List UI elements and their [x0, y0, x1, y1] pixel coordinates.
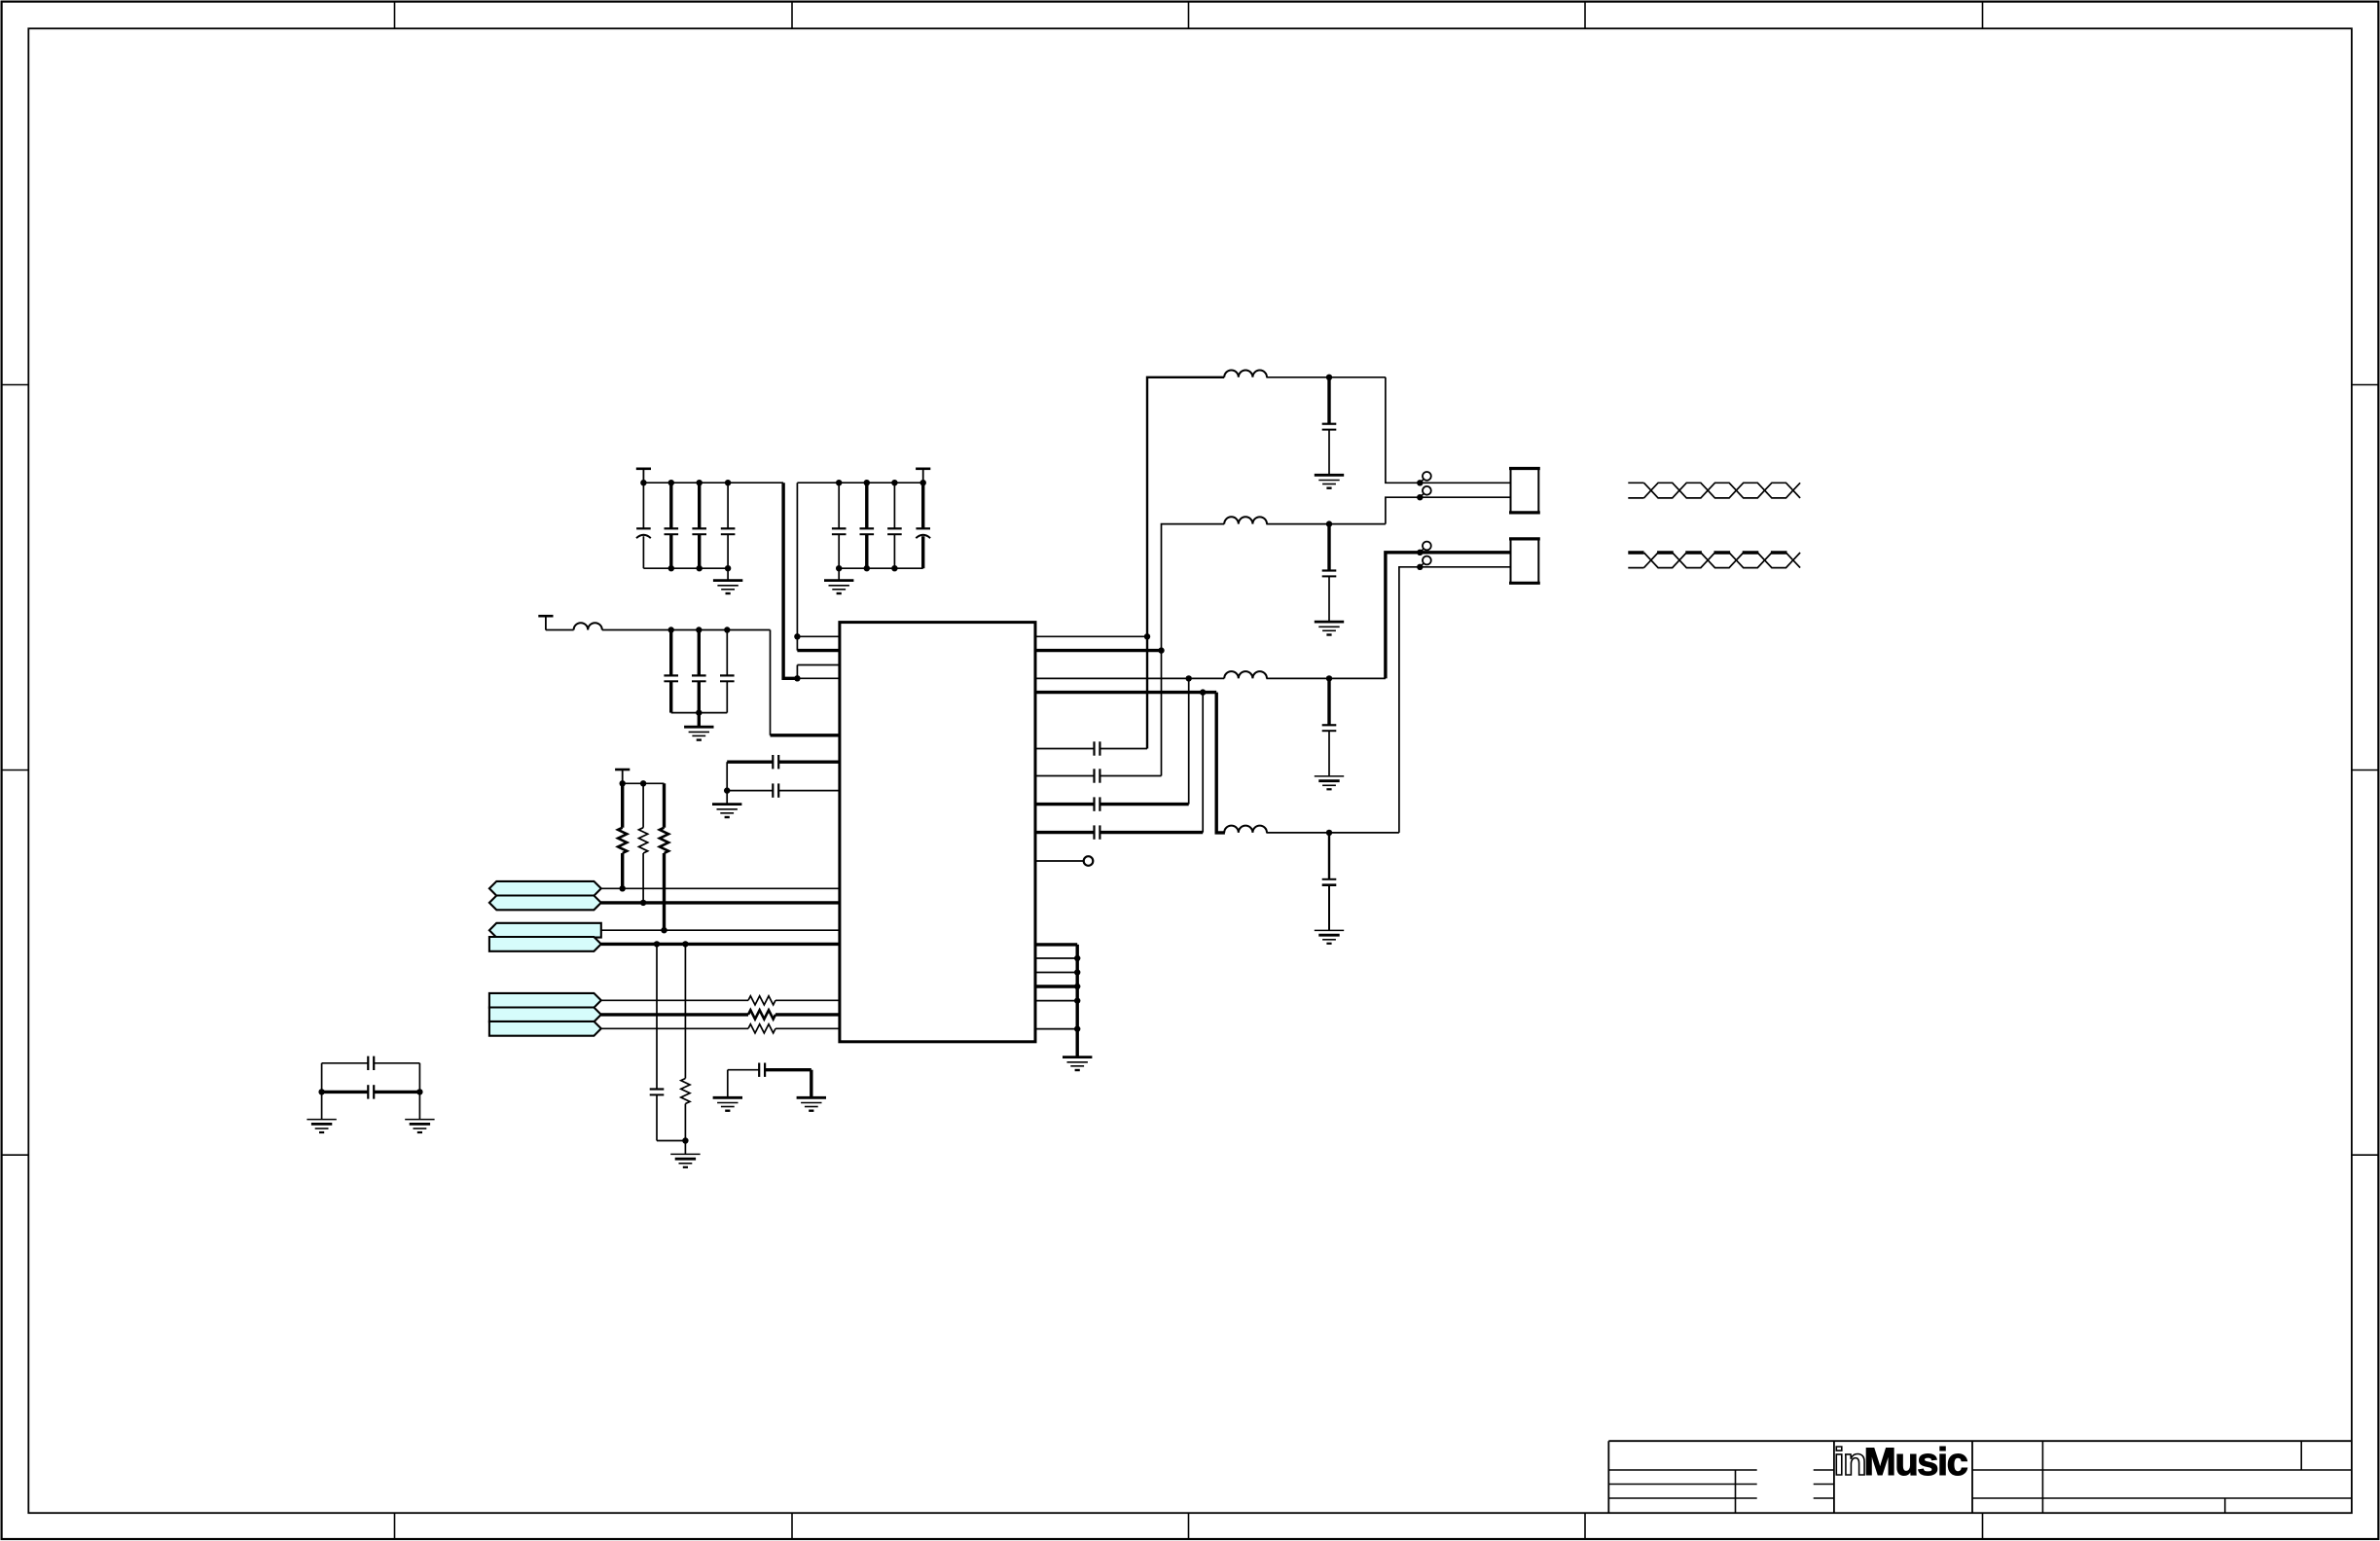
wire FB2 out [1266, 523, 1386, 525]
capacitor C20 [1035, 769, 1162, 782]
wire NET4 to U1 [601, 943, 840, 946]
resistor R5 [601, 996, 840, 1005]
capacitor C10 [692, 630, 706, 713]
twisted pair cable W1 [1628, 483, 1800, 498]
wire NET3 to U1 [601, 929, 840, 931]
wire A elbow [796, 665, 798, 679]
node A1 [794, 675, 800, 681]
wire U1 pin1 right [1035, 635, 1147, 637]
capacitor C11 [720, 630, 735, 713]
connector J1 [1509, 469, 1540, 513]
power flag VDD1 [636, 469, 651, 483]
wire FB4 to J2 [1399, 567, 1511, 833]
wire C9-C11 bottom rail [671, 709, 728, 715]
wire ground bus [1035, 945, 1080, 1057]
wire C5-C8 bottom rail [836, 565, 923, 571]
wire mid rail [668, 627, 771, 632]
wire U1 pin2 left [797, 649, 840, 652]
wire VDD2 rail [797, 480, 926, 485]
net flag NET5 [489, 993, 601, 1008]
capacitor C23 [1322, 377, 1337, 476]
resistor R4 [681, 944, 690, 1140]
node C16R [416, 1089, 422, 1094]
wire U1 pin3 right [1035, 677, 1224, 679]
net flag NET3 [489, 923, 601, 938]
capacitor C9 [664, 630, 678, 713]
ground GFB4 [1315, 930, 1344, 943]
net flag NET1 [489, 881, 601, 896]
wire ferrite2 riser [1162, 524, 1225, 776]
wire FB4 out [1266, 832, 1399, 834]
ground bank2 [824, 568, 853, 593]
node V2 [1158, 647, 1164, 653]
no-connect pin [1035, 856, 1093, 866]
IC U1 [840, 623, 1035, 1042]
wire U1 pin1 left [797, 635, 840, 637]
wire U1 pin3 left [797, 664, 840, 666]
capacitor C5 [832, 483, 847, 568]
node FB1 [1326, 375, 1332, 380]
resistor R7 [601, 1024, 840, 1033]
wire mid rail to U1 pin5 [771, 630, 840, 735]
ground bank3 [684, 713, 713, 740]
resistor R6 [601, 1010, 840, 1019]
capacitor C16 [322, 1085, 420, 1098]
wire C15 left rail [321, 1063, 323, 1120]
capacitor C14 [650, 944, 686, 1140]
wire U1 pin2 right [1035, 649, 1162, 652]
capacitor C24 [1322, 524, 1337, 623]
wire NET1 to U1 [601, 887, 840, 889]
capacitor C1 [636, 483, 651, 568]
wire C21 riser [1188, 678, 1190, 804]
ground C13 [712, 791, 741, 817]
resistor R1 [618, 783, 627, 891]
wire net B vertical [796, 483, 798, 636]
node C16L [318, 1089, 324, 1094]
capacitor C22 [1035, 825, 1203, 839]
node N4a [654, 941, 660, 947]
resistor R2 [639, 783, 648, 906]
node R4C14 [682, 1137, 688, 1143]
net flag NET4 [489, 937, 601, 951]
ferrite bead FB3 [1224, 671, 1267, 678]
capacitor C17 [728, 1063, 811, 1077]
wire FB1 out [1266, 376, 1386, 378]
node V3 [1186, 675, 1192, 681]
capacitor C2 [665, 483, 679, 568]
wire C1-C4 bottom rail [643, 565, 731, 571]
ferrite bead FB2 [1224, 517, 1267, 523]
wire ferrite4 feed [1216, 693, 1225, 833]
power flag VDD3 [538, 616, 553, 629]
wire FB3 to J2 [1386, 553, 1511, 679]
node FB4 [1326, 830, 1332, 836]
test point TP2 [1417, 486, 1431, 501]
ferrite bead FB1 [1224, 371, 1267, 377]
wire U1 pin4 left [797, 677, 840, 679]
ground GFB3 [1315, 776, 1344, 789]
wire FB3 out [1266, 677, 1386, 679]
test point TP1 [1417, 472, 1431, 485]
capacitor C8 [916, 483, 930, 568]
net flag NET6 [489, 1008, 601, 1022]
ground C17R [797, 1070, 826, 1111]
power flag VDD4 [615, 770, 630, 783]
ground GFB2 [1315, 622, 1344, 634]
ground R4 [670, 1141, 700, 1167]
wire C22 riser [1202, 693, 1204, 833]
inductor L1 [546, 623, 671, 629]
wire C12 down [726, 762, 728, 790]
ground bank1 [713, 568, 742, 593]
capacitor C19 [1035, 741, 1147, 755]
ground U1 [1063, 1057, 1092, 1070]
node FB3 [1326, 675, 1332, 681]
capacitor C3 [692, 483, 706, 568]
test point TP3 [1417, 542, 1431, 555]
wire FB1 to J1 [1386, 377, 1511, 484]
node V4 [1200, 689, 1206, 695]
capacitor C4 [721, 483, 736, 568]
resistor R3 [660, 783, 668, 933]
capacitor C13 [727, 783, 840, 797]
capacitor C7 [887, 483, 902, 568]
node B1 [794, 633, 800, 639]
wire B elbow [796, 636, 798, 650]
capacitor C15 [322, 1057, 420, 1070]
ground C17L [713, 1070, 742, 1111]
power flag VDD2 [916, 469, 930, 483]
capacitor C12 [727, 755, 840, 769]
ground C16R [405, 1120, 434, 1132]
connector J2 [1509, 539, 1540, 583]
node V1 [1144, 633, 1150, 639]
capacitor C6 [860, 483, 875, 568]
capacitor C21 [1035, 797, 1189, 810]
node N4b [682, 941, 688, 947]
wire VDD4 rail [620, 780, 665, 786]
ground GFB1 [1315, 475, 1344, 487]
wire C15 right rail [418, 1063, 420, 1120]
wire FB2 to J1 [1386, 497, 1511, 523]
wire VDD1 rail [640, 480, 783, 485]
wire ferrite1 riser [1147, 377, 1224, 749]
capacitor C26 [1322, 833, 1337, 931]
wire NET2 to U1 [601, 901, 840, 904]
node FB2 [1326, 520, 1332, 526]
net flag NET7 [489, 1021, 601, 1036]
net flag NET2 [489, 896, 601, 911]
ferrite bead FB4 [1224, 826, 1267, 833]
node C12C13 [724, 787, 730, 793]
wire U1 pin4 right [1035, 691, 1216, 694]
wire net A vertical [783, 483, 797, 678]
ground C16L [307, 1120, 336, 1132]
test point TP4 [1417, 556, 1431, 570]
svg-text:in: in [1834, 1441, 1866, 1484]
twisted pair cable W2 [1628, 553, 1800, 568]
svg-text:Music: Music [1864, 1441, 1968, 1484]
capacitor C25 [1322, 678, 1337, 776]
